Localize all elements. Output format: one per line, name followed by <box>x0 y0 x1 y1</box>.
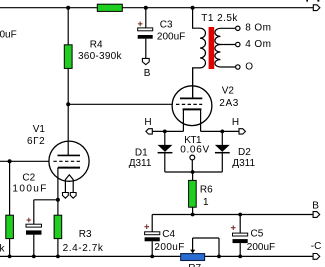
svg-text:1: 1 <box>203 197 209 208</box>
svg-text:0.06V: 0.06V <box>180 145 210 156</box>
svg-text:C4: C4 <box>162 229 175 240</box>
svg-text:B: B <box>144 68 151 79</box>
svg-text:-C: -C <box>311 241 322 252</box>
svg-text:6Г2: 6Г2 <box>27 136 45 147</box>
svg-text:R3: R3 <box>79 229 92 240</box>
svg-text:H: H <box>232 117 239 128</box>
svg-text:2A3: 2A3 <box>219 98 239 109</box>
svg-text:R6: R6 <box>200 184 213 195</box>
svg-text:H: H <box>144 117 151 128</box>
svg-text:R7: R7 <box>188 263 201 267</box>
svg-text:D2: D2 <box>238 147 251 158</box>
svg-text:R4: R4 <box>90 39 103 50</box>
svg-text:T1 2.5k: T1 2.5k <box>201 13 238 24</box>
svg-text:200uF: 200uF <box>157 31 185 42</box>
svg-text:k: k <box>0 244 6 255</box>
svg-text:C5: C5 <box>251 228 264 239</box>
svg-text:C3: C3 <box>160 20 173 31</box>
svg-text:V2: V2 <box>222 86 235 97</box>
svg-text:D1: D1 <box>135 148 148 159</box>
svg-text:C2: C2 <box>22 173 35 184</box>
svg-text:V1: V1 <box>33 124 46 135</box>
svg-text:B: B <box>312 201 319 212</box>
svg-text:O: O <box>245 61 253 72</box>
svg-text:2.4-2.7k: 2.4-2.7k <box>63 243 104 254</box>
svg-text:200uF: 200uF <box>247 242 275 253</box>
svg-text:8 Om: 8 Om <box>245 23 271 34</box>
svg-text:Д311: Д311 <box>129 158 152 169</box>
svg-text:0uF: 0uF <box>0 30 17 41</box>
svg-text:200uF: 200uF <box>154 242 184 253</box>
svg-text:100uF: 100uF <box>12 183 47 194</box>
svg-text:Д311: Д311 <box>232 158 255 169</box>
svg-text:360-390k: 360-390k <box>78 51 122 62</box>
svg-text:4 Om: 4 Om <box>245 39 271 50</box>
